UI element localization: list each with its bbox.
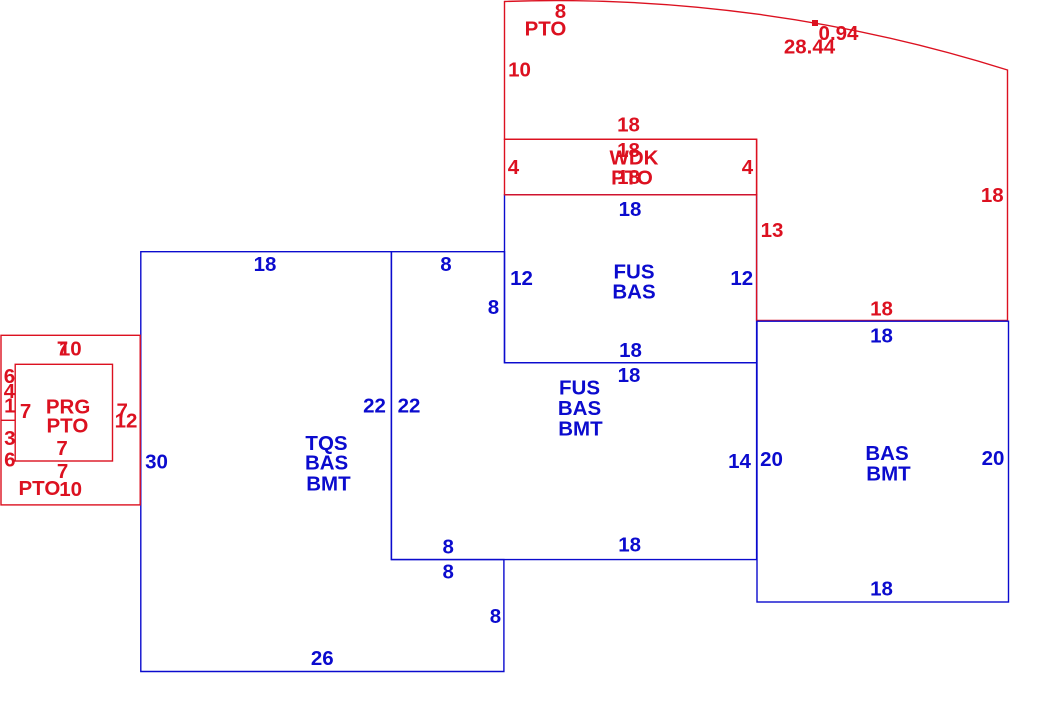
svg-text:26: 26 — [311, 647, 334, 670]
area TQS/BAS/BMT outline — [141, 252, 504, 672]
svg-text:8: 8 — [442, 561, 453, 584]
svg-text:8: 8 — [440, 253, 451, 276]
svg-text:12: 12 — [115, 409, 138, 432]
area WDK/PTO outline — [505, 139, 757, 195]
svg-text:BMT: BMT — [558, 417, 603, 440]
svg-text:22: 22 — [398, 395, 421, 418]
svg-text:8: 8 — [442, 536, 453, 559]
svg-text:10: 10 — [59, 478, 82, 501]
area PRG/PTO inner outline — [15, 364, 112, 461]
svg-text:12: 12 — [730, 267, 753, 290]
svg-text:18: 18 — [619, 198, 642, 221]
area PTO (garage surround) outline — [1, 335, 140, 505]
svg-text:PTO: PTO — [525, 18, 567, 41]
svg-text:22: 22 — [363, 395, 386, 418]
svg-text:BMT: BMT — [866, 463, 911, 486]
svg-text:PTO: PTO — [611, 167, 653, 190]
svg-text:10: 10 — [59, 337, 82, 360]
svg-text:4: 4 — [742, 156, 754, 179]
area FUS/BAS outline — [505, 195, 757, 363]
svg-text:18: 18 — [870, 325, 893, 348]
svg-text:18: 18 — [617, 114, 640, 137]
svg-text:PTO: PTO — [47, 414, 89, 437]
svg-text:18: 18 — [870, 298, 893, 321]
area FUS/BAS/BMT outline — [391, 252, 756, 560]
area BAS/BMT outline — [757, 321, 1009, 602]
svg-text:20: 20 — [760, 448, 783, 471]
svg-text:10: 10 — [508, 59, 531, 82]
svg-text:18: 18 — [981, 184, 1004, 207]
svg-text:4: 4 — [508, 156, 520, 179]
svg-text:30: 30 — [145, 451, 168, 474]
svg-text:6: 6 — [4, 448, 15, 471]
svg-text:BMT: BMT — [306, 472, 351, 495]
svg-text:14: 14 — [728, 450, 751, 473]
svg-text:7: 7 — [56, 437, 67, 460]
svg-text:BAS: BAS — [305, 452, 348, 475]
svg-text:BAS: BAS — [612, 281, 655, 304]
curve midpoint marker — [812, 20, 818, 26]
svg-text:18: 18 — [870, 578, 893, 601]
svg-text:28.44: 28.44 — [784, 36, 836, 59]
svg-text:3: 3 — [4, 427, 15, 450]
svg-text:18: 18 — [618, 364, 641, 387]
svg-text:12: 12 — [510, 267, 533, 290]
svg-text:13: 13 — [761, 219, 784, 242]
svg-text:8: 8 — [488, 296, 499, 319]
svg-text:PTO: PTO — [19, 477, 61, 500]
svg-text:18: 18 — [618, 534, 641, 557]
svg-text:18: 18 — [254, 253, 277, 276]
svg-text:8: 8 — [490, 605, 501, 628]
svg-text:1: 1 — [4, 395, 15, 418]
tick 1ft on garage left wall — [1, 419, 15, 421]
svg-text:18: 18 — [619, 339, 642, 362]
area PTO (curved) outline — [505, 1, 1008, 321]
svg-text:7: 7 — [20, 400, 31, 423]
svg-text:20: 20 — [982, 447, 1005, 470]
